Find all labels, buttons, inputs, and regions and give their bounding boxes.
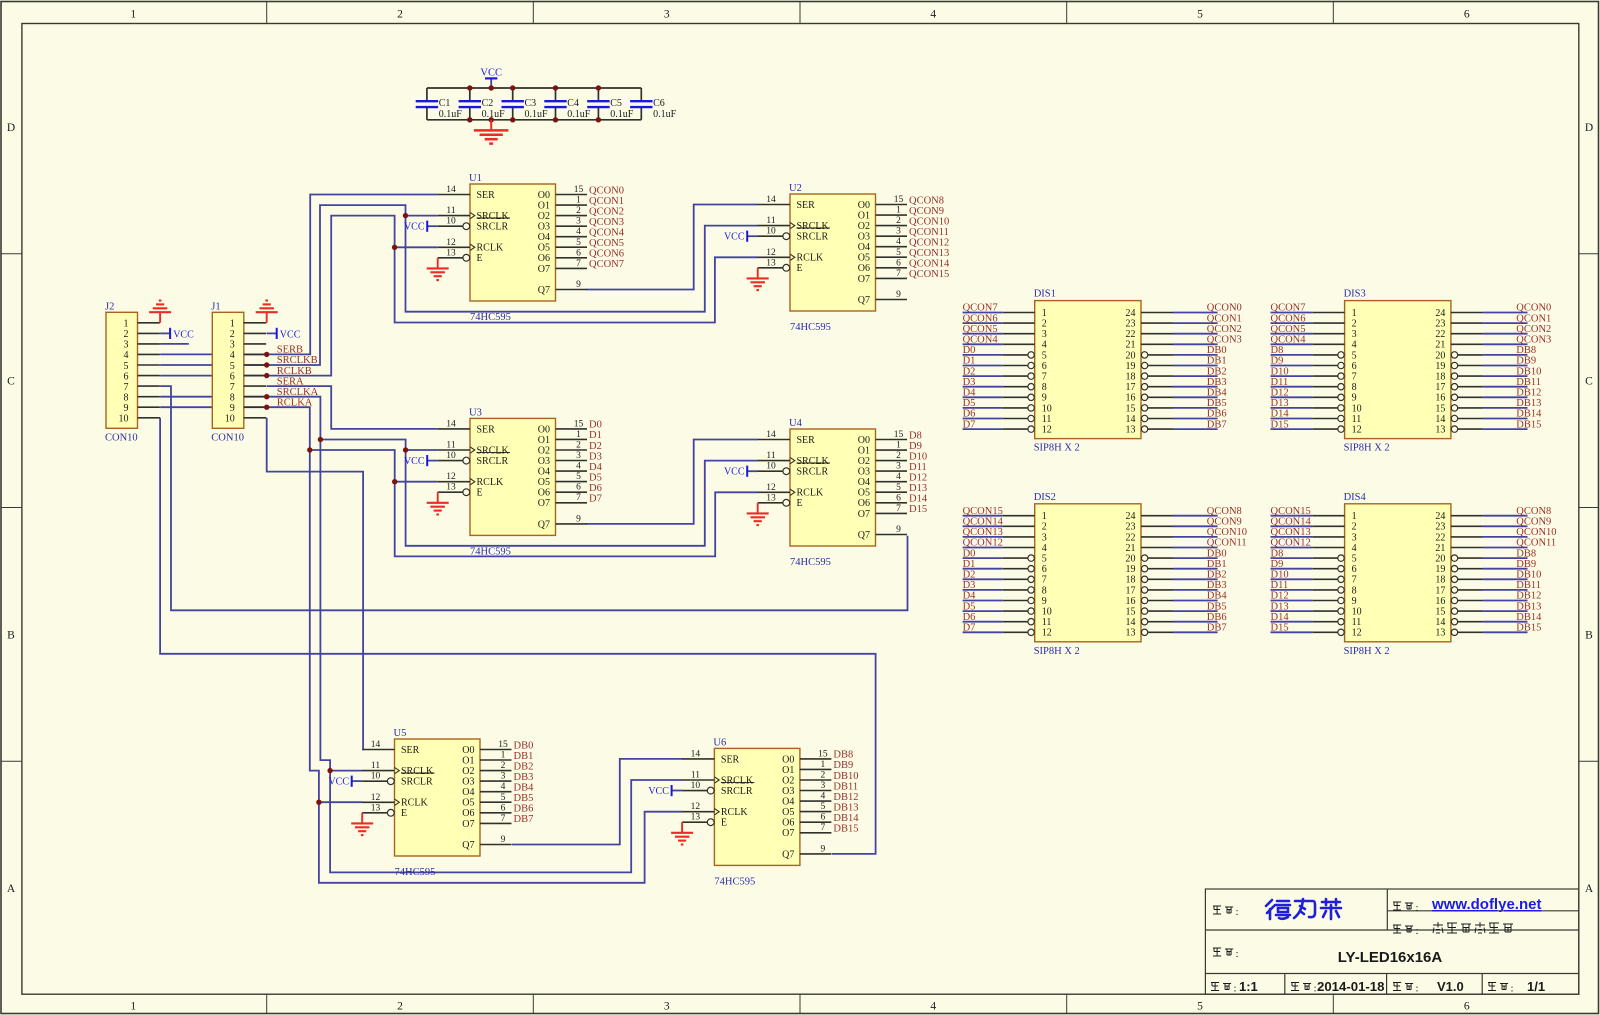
svg-text:QCON7: QCON7 xyxy=(1271,303,1306,314)
wire to DIS2 pin 6 net D1 xyxy=(963,568,1003,570)
wire to DIS4 pin 9 net D12 xyxy=(1271,600,1313,602)
svg-text:4: 4 xyxy=(896,472,901,482)
wire from DIS4 pin 13 net DB15 xyxy=(1483,631,1528,633)
svg-text:VCC: VCC xyxy=(173,330,194,341)
DIS4 pin 11 xyxy=(1313,621,1338,623)
svg-text:16: 16 xyxy=(1435,393,1445,404)
svg-text:QCON14: QCON14 xyxy=(1271,517,1312,528)
wire to DIS2 pin 3 net QCON13 xyxy=(963,536,1003,538)
J2 pin 7 xyxy=(138,385,160,387)
svg-text:17: 17 xyxy=(1435,585,1445,596)
wire to DIS2 pin 7 net D2 xyxy=(963,578,1003,580)
svg-text:QCON3: QCON3 xyxy=(1207,335,1242,346)
svg-text:1: 1 xyxy=(821,760,826,770)
svg-text:D7: D7 xyxy=(963,623,976,634)
svg-text:11: 11 xyxy=(1352,414,1362,425)
svg-text:6: 6 xyxy=(501,803,506,813)
svg-text:18: 18 xyxy=(1435,372,1445,383)
svg-text:5: 5 xyxy=(1042,350,1047,361)
svg-text:12: 12 xyxy=(1042,425,1052,436)
svg-text:14: 14 xyxy=(371,740,381,750)
svg-text:O5: O5 xyxy=(858,488,870,499)
DIS2 pin 22 xyxy=(1141,536,1173,538)
DIS2 pin 15 xyxy=(1148,610,1173,612)
svg-text:2: 2 xyxy=(821,771,826,781)
U1 pin 3 O3 xyxy=(556,225,588,227)
svg-text:U2: U2 xyxy=(789,183,802,194)
svg-text:7: 7 xyxy=(896,504,901,514)
svg-text:23: 23 xyxy=(1126,319,1136,330)
svg-text:D5: D5 xyxy=(589,472,602,483)
J2 pin 1 xyxy=(138,322,160,324)
svg-text:24: 24 xyxy=(1435,308,1445,319)
svg-text:SRCLR: SRCLR xyxy=(477,222,509,233)
svg-text:9: 9 xyxy=(576,514,581,524)
svg-text:O6: O6 xyxy=(538,488,550,499)
svg-text:5: 5 xyxy=(821,802,826,812)
svg-text::: : xyxy=(1236,948,1239,960)
svg-text:RCLK: RCLK xyxy=(797,488,824,499)
J2 pin 5 xyxy=(138,364,160,366)
svg-text:DB2: DB2 xyxy=(514,761,534,772)
svg-text:12: 12 xyxy=(691,802,701,812)
svg-text:23: 23 xyxy=(1435,522,1445,533)
svg-text:4: 4 xyxy=(1042,340,1047,351)
svg-text:1/1: 1/1 xyxy=(1527,979,1545,994)
svg-text:10: 10 xyxy=(371,772,381,782)
svg-text:6: 6 xyxy=(1352,361,1357,372)
svg-text:9: 9 xyxy=(501,835,506,845)
wire from DIS3 pin 13 net DB15 xyxy=(1483,428,1528,430)
svg-text:CON10: CON10 xyxy=(211,432,244,443)
wire to DIS4 pin 7 net D10 xyxy=(1271,578,1313,580)
U6 pin 3 O3 xyxy=(800,790,832,792)
DIS4 pin 10 xyxy=(1313,610,1338,612)
wire from DIS3 pin 21 net QCON3 xyxy=(1483,343,1528,345)
svg-text:7: 7 xyxy=(576,493,581,503)
svg-text:1: 1 xyxy=(130,1001,136,1013)
wire cap bank top rail xyxy=(427,87,641,89)
svg-text:14: 14 xyxy=(691,749,701,759)
DIS2 pin 12 xyxy=(1003,631,1028,633)
svg-text:DB7: DB7 xyxy=(1207,419,1227,430)
svg-text:1: 1 xyxy=(1352,308,1357,319)
junction SRCLKA branch xyxy=(318,437,323,442)
svg-text:D8: D8 xyxy=(909,430,922,441)
wire to DIS1 pin 7 net D2 xyxy=(963,375,1003,377)
DIS1 pin 14 xyxy=(1148,418,1173,420)
svg-text:D8: D8 xyxy=(1271,548,1284,559)
svg-text:15: 15 xyxy=(574,419,584,429)
svg-text:D3: D3 xyxy=(589,451,602,462)
junction J1 pin8 SRCLKA xyxy=(264,394,269,399)
U3 pin 12 RCLK xyxy=(438,481,470,483)
DIS3 pin 16 xyxy=(1458,396,1483,398)
svg-text:O2: O2 xyxy=(782,775,794,786)
svg-text:RCLKB: RCLKB xyxy=(277,366,312,377)
svg-text:13: 13 xyxy=(766,258,776,268)
svg-text:QCON8: QCON8 xyxy=(1207,506,1242,517)
svg-text:3: 3 xyxy=(821,781,826,791)
svg-text:15: 15 xyxy=(574,185,584,195)
svg-text:17: 17 xyxy=(1435,382,1445,393)
svg-text::: : xyxy=(1236,906,1239,918)
svg-text:11: 11 xyxy=(766,216,775,226)
DIS4 pin 17 xyxy=(1458,589,1483,591)
U5 pin 10 SRCLR xyxy=(362,780,387,782)
svg-text:19: 19 xyxy=(1126,564,1136,575)
wire to DIS1 pin 2 net QCON6 xyxy=(963,322,1003,324)
svg-text:10: 10 xyxy=(766,462,776,472)
svg-text:C1: C1 xyxy=(439,98,451,109)
U2 pin 3 O3 xyxy=(876,235,908,237)
svg-text:6: 6 xyxy=(230,371,235,382)
svg-text:1: 1 xyxy=(130,9,136,21)
svg-text:SRCLR: SRCLR xyxy=(401,777,433,788)
svg-text:9: 9 xyxy=(896,525,901,535)
U6 pin 12 RCLK xyxy=(682,811,714,813)
svg-text:QCON4: QCON4 xyxy=(589,228,625,239)
svg-text:1: 1 xyxy=(576,430,581,440)
junction U5 SRCLK pin xyxy=(327,768,332,773)
U3 pin 1 O1 xyxy=(556,438,588,440)
wire from DIS1 pin 21 net QCON3 xyxy=(1173,343,1218,345)
svg-text:O2: O2 xyxy=(538,445,550,456)
U5 pin 13 E xyxy=(362,812,387,814)
svg-text:4: 4 xyxy=(1352,543,1357,554)
U1 pin 14 SER xyxy=(438,194,470,196)
U3 pin 6 O6 xyxy=(556,491,588,493)
svg-text:2: 2 xyxy=(230,329,235,340)
wire to DIS4 pin 10 net D13 xyxy=(1271,610,1313,612)
brand name De Fei Lai (stylized) xyxy=(1266,899,1341,919)
svg-text:E: E xyxy=(797,263,803,274)
wire to DIS2 pin 4 net QCON12 xyxy=(963,547,1003,549)
U1 pin 13 E xyxy=(438,257,463,259)
wire from DIS3 pin 18 net DB10 xyxy=(1483,375,1528,377)
svg-text:21: 21 xyxy=(1435,340,1445,351)
DIS4 pin 2 xyxy=(1313,525,1345,527)
power VCC at U2 SRCLR xyxy=(746,231,748,242)
svg-text:16: 16 xyxy=(1435,596,1445,607)
svg-text:14: 14 xyxy=(1435,414,1445,425)
svg-text:9: 9 xyxy=(1042,596,1047,607)
DIS2 pin 7 xyxy=(1003,578,1028,580)
U5 pin 12 RCLK xyxy=(362,801,394,803)
DIS1 pin 22 xyxy=(1141,333,1173,335)
svg-text:O7: O7 xyxy=(538,498,550,509)
svg-text:QCON1: QCON1 xyxy=(589,196,624,207)
svg-text:O0: O0 xyxy=(858,200,870,211)
wire from DIS4 pin 14 net DB14 xyxy=(1483,621,1528,623)
wire SRCLKA branch under U5 to U6 SRCLK xyxy=(330,771,682,873)
svg-text:SRCLKB: SRCLKB xyxy=(277,355,318,366)
svg-text:DB5: DB5 xyxy=(1207,398,1227,409)
J2 pin 8 xyxy=(138,396,160,398)
wire from DIS4 pin 15 net DB13 xyxy=(1483,610,1528,612)
DIS3 pin 19 xyxy=(1458,365,1483,367)
svg-text:23: 23 xyxy=(1435,319,1445,330)
svg-text:2: 2 xyxy=(1042,319,1047,330)
svg-text:QCON4: QCON4 xyxy=(963,335,999,346)
svg-text:QCON9: QCON9 xyxy=(1516,517,1551,528)
svg-text:D15: D15 xyxy=(1271,623,1289,634)
wire from DIS4 pin 18 net DB10 xyxy=(1483,578,1528,580)
wire from DIS4 pin 19 net DB9 xyxy=(1483,568,1528,570)
wire to DIS4 pin 12 net D15 xyxy=(1271,631,1313,633)
svg-text:O0: O0 xyxy=(538,190,550,201)
svg-text:9: 9 xyxy=(1352,596,1357,607)
svg-text:D13: D13 xyxy=(1271,398,1289,409)
svg-text:C5: C5 xyxy=(610,98,622,109)
svg-text:14: 14 xyxy=(766,195,776,205)
svg-text:QCON13: QCON13 xyxy=(963,527,1003,538)
svg-text:10: 10 xyxy=(225,414,235,425)
svg-text:2: 2 xyxy=(1352,522,1357,533)
DIS3 pin 18 xyxy=(1458,375,1483,377)
svg-text:RCLK: RCLK xyxy=(721,807,748,818)
svg-text:DB5: DB5 xyxy=(1207,601,1227,612)
svg-text:24: 24 xyxy=(1435,511,1445,522)
svg-text:17: 17 xyxy=(1126,585,1136,596)
svg-text:O3: O3 xyxy=(858,467,870,478)
ground at U1 E xyxy=(427,258,449,280)
capacitor C3 0.1uF xyxy=(502,88,549,120)
svg-text:O3: O3 xyxy=(782,786,794,797)
wire VCC to U3 SRCLR xyxy=(427,460,438,462)
svg-text:5: 5 xyxy=(576,238,581,248)
U3 pin 4 O4 xyxy=(556,470,588,472)
svg-text:20: 20 xyxy=(1435,554,1445,565)
DIS3 pin 24 xyxy=(1451,312,1483,314)
svg-text:O6: O6 xyxy=(538,253,550,264)
DIS2 pin 8 xyxy=(1003,589,1028,591)
svg-text:RCLK: RCLK xyxy=(477,477,504,488)
DIS4 pin 22 xyxy=(1451,536,1483,538)
svg-text:19: 19 xyxy=(1435,361,1445,372)
svg-text:10: 10 xyxy=(1042,607,1052,618)
svg-text:SER: SER xyxy=(797,435,816,446)
svg-text:D2: D2 xyxy=(589,441,602,452)
border row tick right xyxy=(1579,760,1599,762)
svg-text:6: 6 xyxy=(1464,9,1470,21)
svg-text:B: B xyxy=(1585,629,1593,641)
wire VCC to U5 SRCLR xyxy=(352,780,363,782)
J1 pin 9 xyxy=(244,406,266,408)
svg-text:5: 5 xyxy=(124,361,129,372)
svg-text:D6: D6 xyxy=(963,612,976,623)
svg-text:O1: O1 xyxy=(462,755,474,766)
svg-text:6: 6 xyxy=(821,813,826,823)
wire from DIS1 pin 23 net QCON1 xyxy=(1173,322,1218,324)
IC U2 74HC595 body xyxy=(790,194,876,311)
DIS1 pin 5 xyxy=(1003,354,1028,356)
wire to DIS4 pin 6 net D9 xyxy=(1271,568,1313,570)
svg-text:11: 11 xyxy=(446,441,455,451)
DIS1 pin 13 xyxy=(1148,428,1173,430)
wire to DIS4 pin 3 net QCON13 xyxy=(1271,536,1313,538)
svg-text:DB0: DB0 xyxy=(514,740,534,751)
wire to DIS3 pin 12 net D15 xyxy=(1271,428,1313,430)
DIS1 pin 15 xyxy=(1148,407,1173,409)
DIS4 pin 14 xyxy=(1458,621,1483,623)
wire to DIS2 pin 2 net QCON14 xyxy=(963,525,1003,527)
svg-text:DB10: DB10 xyxy=(1516,366,1541,377)
svg-text:SER: SER xyxy=(721,754,740,765)
border row tick left xyxy=(1,253,22,255)
svg-text:D3: D3 xyxy=(963,580,976,591)
svg-text:Q7: Q7 xyxy=(538,519,550,530)
U3 pin 15 O0 xyxy=(556,428,588,430)
svg-text:4: 4 xyxy=(930,9,936,21)
svg-text:DB10: DB10 xyxy=(833,771,858,782)
svg-text:DB1: DB1 xyxy=(1207,356,1227,367)
DIS2 pin 10 xyxy=(1003,610,1028,612)
svg-text:D0: D0 xyxy=(589,420,602,431)
svg-text:DB15: DB15 xyxy=(1516,623,1541,634)
DIS3 pin 6 xyxy=(1313,365,1338,367)
svg-text:5: 5 xyxy=(896,248,901,258)
svg-text:1: 1 xyxy=(1352,511,1357,522)
svg-text:D9: D9 xyxy=(1271,559,1284,570)
wire J2 pin3 stub xyxy=(160,343,189,345)
U4 pin 7 O7 xyxy=(876,512,908,514)
DIS4 pin 24 xyxy=(1451,515,1483,517)
svg-text:13: 13 xyxy=(446,483,456,493)
svg-text:O4: O4 xyxy=(462,787,474,798)
svg-text:DIS2: DIS2 xyxy=(1034,492,1056,503)
wire to DIS2 pin 12 net D7 xyxy=(963,631,1003,633)
DIS4 pin 20 xyxy=(1458,557,1483,559)
IC U6 74HC595 body xyxy=(714,748,800,865)
svg-text:O2: O2 xyxy=(538,211,550,222)
wire to DIS2 pin 5 net D0 xyxy=(963,557,1003,559)
wire net J2.10 to U6 Q7 xyxy=(160,418,876,854)
resistor network DIS3 SIP8H X 2 body xyxy=(1345,301,1451,439)
svg-text:15: 15 xyxy=(894,430,904,440)
DIS3 pin 17 xyxy=(1458,386,1483,388)
svg-text:E: E xyxy=(401,808,407,819)
svg-text:DB10: DB10 xyxy=(1516,570,1541,581)
svg-text:3: 3 xyxy=(664,1001,670,1013)
U1 pin 15 O0 xyxy=(556,194,588,196)
svg-text:7: 7 xyxy=(501,814,506,824)
svg-text:O4: O4 xyxy=(858,477,870,488)
wire from DIS1 pin 16 net DB4 xyxy=(1173,396,1218,398)
J1 pin 6 xyxy=(244,375,266,377)
svg-text:QCON10: QCON10 xyxy=(1207,527,1247,538)
svg-text:21: 21 xyxy=(1435,543,1445,554)
svg-text:12: 12 xyxy=(766,483,776,493)
wire to DIS3 pin 4 net QCON4 xyxy=(1271,343,1313,345)
U1 pin 5 O5 xyxy=(556,246,588,248)
svg-text:QCON9: QCON9 xyxy=(1207,517,1242,528)
svg-text:DB2: DB2 xyxy=(1207,366,1227,377)
svg-text:DB14: DB14 xyxy=(1516,409,1542,420)
junction top rail xyxy=(596,85,601,90)
wire from DIS4 pin 24 net QCON8 xyxy=(1483,515,1528,517)
wire to DIS3 pin 2 net QCON6 xyxy=(1271,322,1313,324)
DIS3 pin 21 xyxy=(1451,343,1483,345)
title label pinpai (brand) xyxy=(1213,906,1233,914)
wire from DIS3 pin 19 net DB9 xyxy=(1483,365,1528,367)
connector J1 CON10 body xyxy=(212,312,244,428)
svg-text:DB8: DB8 xyxy=(833,750,853,761)
svg-text:SRCLK: SRCLK xyxy=(477,445,510,456)
svg-text:D13: D13 xyxy=(1271,601,1289,612)
svg-text:D1: D1 xyxy=(963,559,976,570)
wire from DIS3 pin 15 net DB13 xyxy=(1483,407,1528,409)
junction J1 pin9 RCLKA xyxy=(264,405,269,410)
svg-text:VCC: VCC xyxy=(328,777,349,788)
svg-text:24: 24 xyxy=(1126,511,1136,522)
svg-text:4: 4 xyxy=(1352,340,1357,351)
svg-text:D12: D12 xyxy=(1271,591,1289,602)
svg-text:4: 4 xyxy=(821,792,826,802)
U2 pin 10 SRCLR xyxy=(758,235,783,237)
svg-text:QCON5: QCON5 xyxy=(963,324,998,335)
DIS1 pin 2 xyxy=(1003,322,1035,324)
svg-text:DB6: DB6 xyxy=(1207,409,1227,420)
U5 pin 2 O2 xyxy=(480,770,512,772)
capacitor C1 0.1uF xyxy=(416,88,463,120)
svg-text:9: 9 xyxy=(1042,393,1047,404)
wire from DIS4 pin 21 net QCON11 xyxy=(1483,547,1528,549)
svg-text:O0: O0 xyxy=(858,435,870,446)
DIS1 pin 4 xyxy=(1003,343,1035,345)
svg-text:QCON12: QCON12 xyxy=(909,238,949,249)
DIS1 pin 16 xyxy=(1148,396,1173,398)
svg-text:6: 6 xyxy=(124,371,129,382)
svg-text:QCON7: QCON7 xyxy=(963,303,998,314)
svg-text:7: 7 xyxy=(1042,575,1047,586)
svg-text:RCLK: RCLK xyxy=(797,253,824,264)
U4 pin 6 O6 xyxy=(876,502,908,504)
svg-text:SRCLKA: SRCLKA xyxy=(277,387,319,398)
svg-text:5: 5 xyxy=(896,483,901,493)
svg-text:19: 19 xyxy=(1435,564,1445,575)
svg-text:20: 20 xyxy=(1126,554,1136,565)
svg-text:DB6: DB6 xyxy=(1207,612,1227,623)
DIS4 pin 13 xyxy=(1458,631,1483,633)
svg-text:O3: O3 xyxy=(538,456,550,467)
svg-text:5: 5 xyxy=(1197,1001,1203,1013)
svg-text:6: 6 xyxy=(576,483,581,493)
wire to DIS4 pin 2 net QCON14 xyxy=(1271,525,1313,527)
U4 pin 2 O2 xyxy=(876,460,908,462)
capacitor C6 0.1uF xyxy=(630,88,677,120)
svg-text:QCON5: QCON5 xyxy=(1271,324,1306,335)
DIS1 pin 9 xyxy=(1003,396,1028,398)
J2 pin 6 xyxy=(138,375,160,377)
J2 pin 2 xyxy=(138,332,160,334)
wire to DIS4 pin 5 net D8 xyxy=(1271,557,1313,559)
svg-text:U6: U6 xyxy=(713,737,726,748)
svg-text:O1: O1 xyxy=(538,201,550,212)
DIS2 pin 20 xyxy=(1148,557,1173,559)
DIS3 pin 22 xyxy=(1451,333,1483,335)
J2 pin 3 xyxy=(138,343,160,345)
svg-text:5: 5 xyxy=(230,361,235,372)
svg-text:D1: D1 xyxy=(589,430,602,441)
ground at U5 E xyxy=(351,813,373,835)
wire to DIS1 pin 5 net D0 xyxy=(963,354,1003,356)
DIS1 pin 23 xyxy=(1141,322,1173,324)
svg-text:SRCLK: SRCLK xyxy=(797,456,830,467)
svg-text:3: 3 xyxy=(896,227,901,237)
U3 pin 10 SRCLR xyxy=(438,460,463,462)
wire from DIS1 pin 24 net QCON0 xyxy=(1173,312,1218,314)
